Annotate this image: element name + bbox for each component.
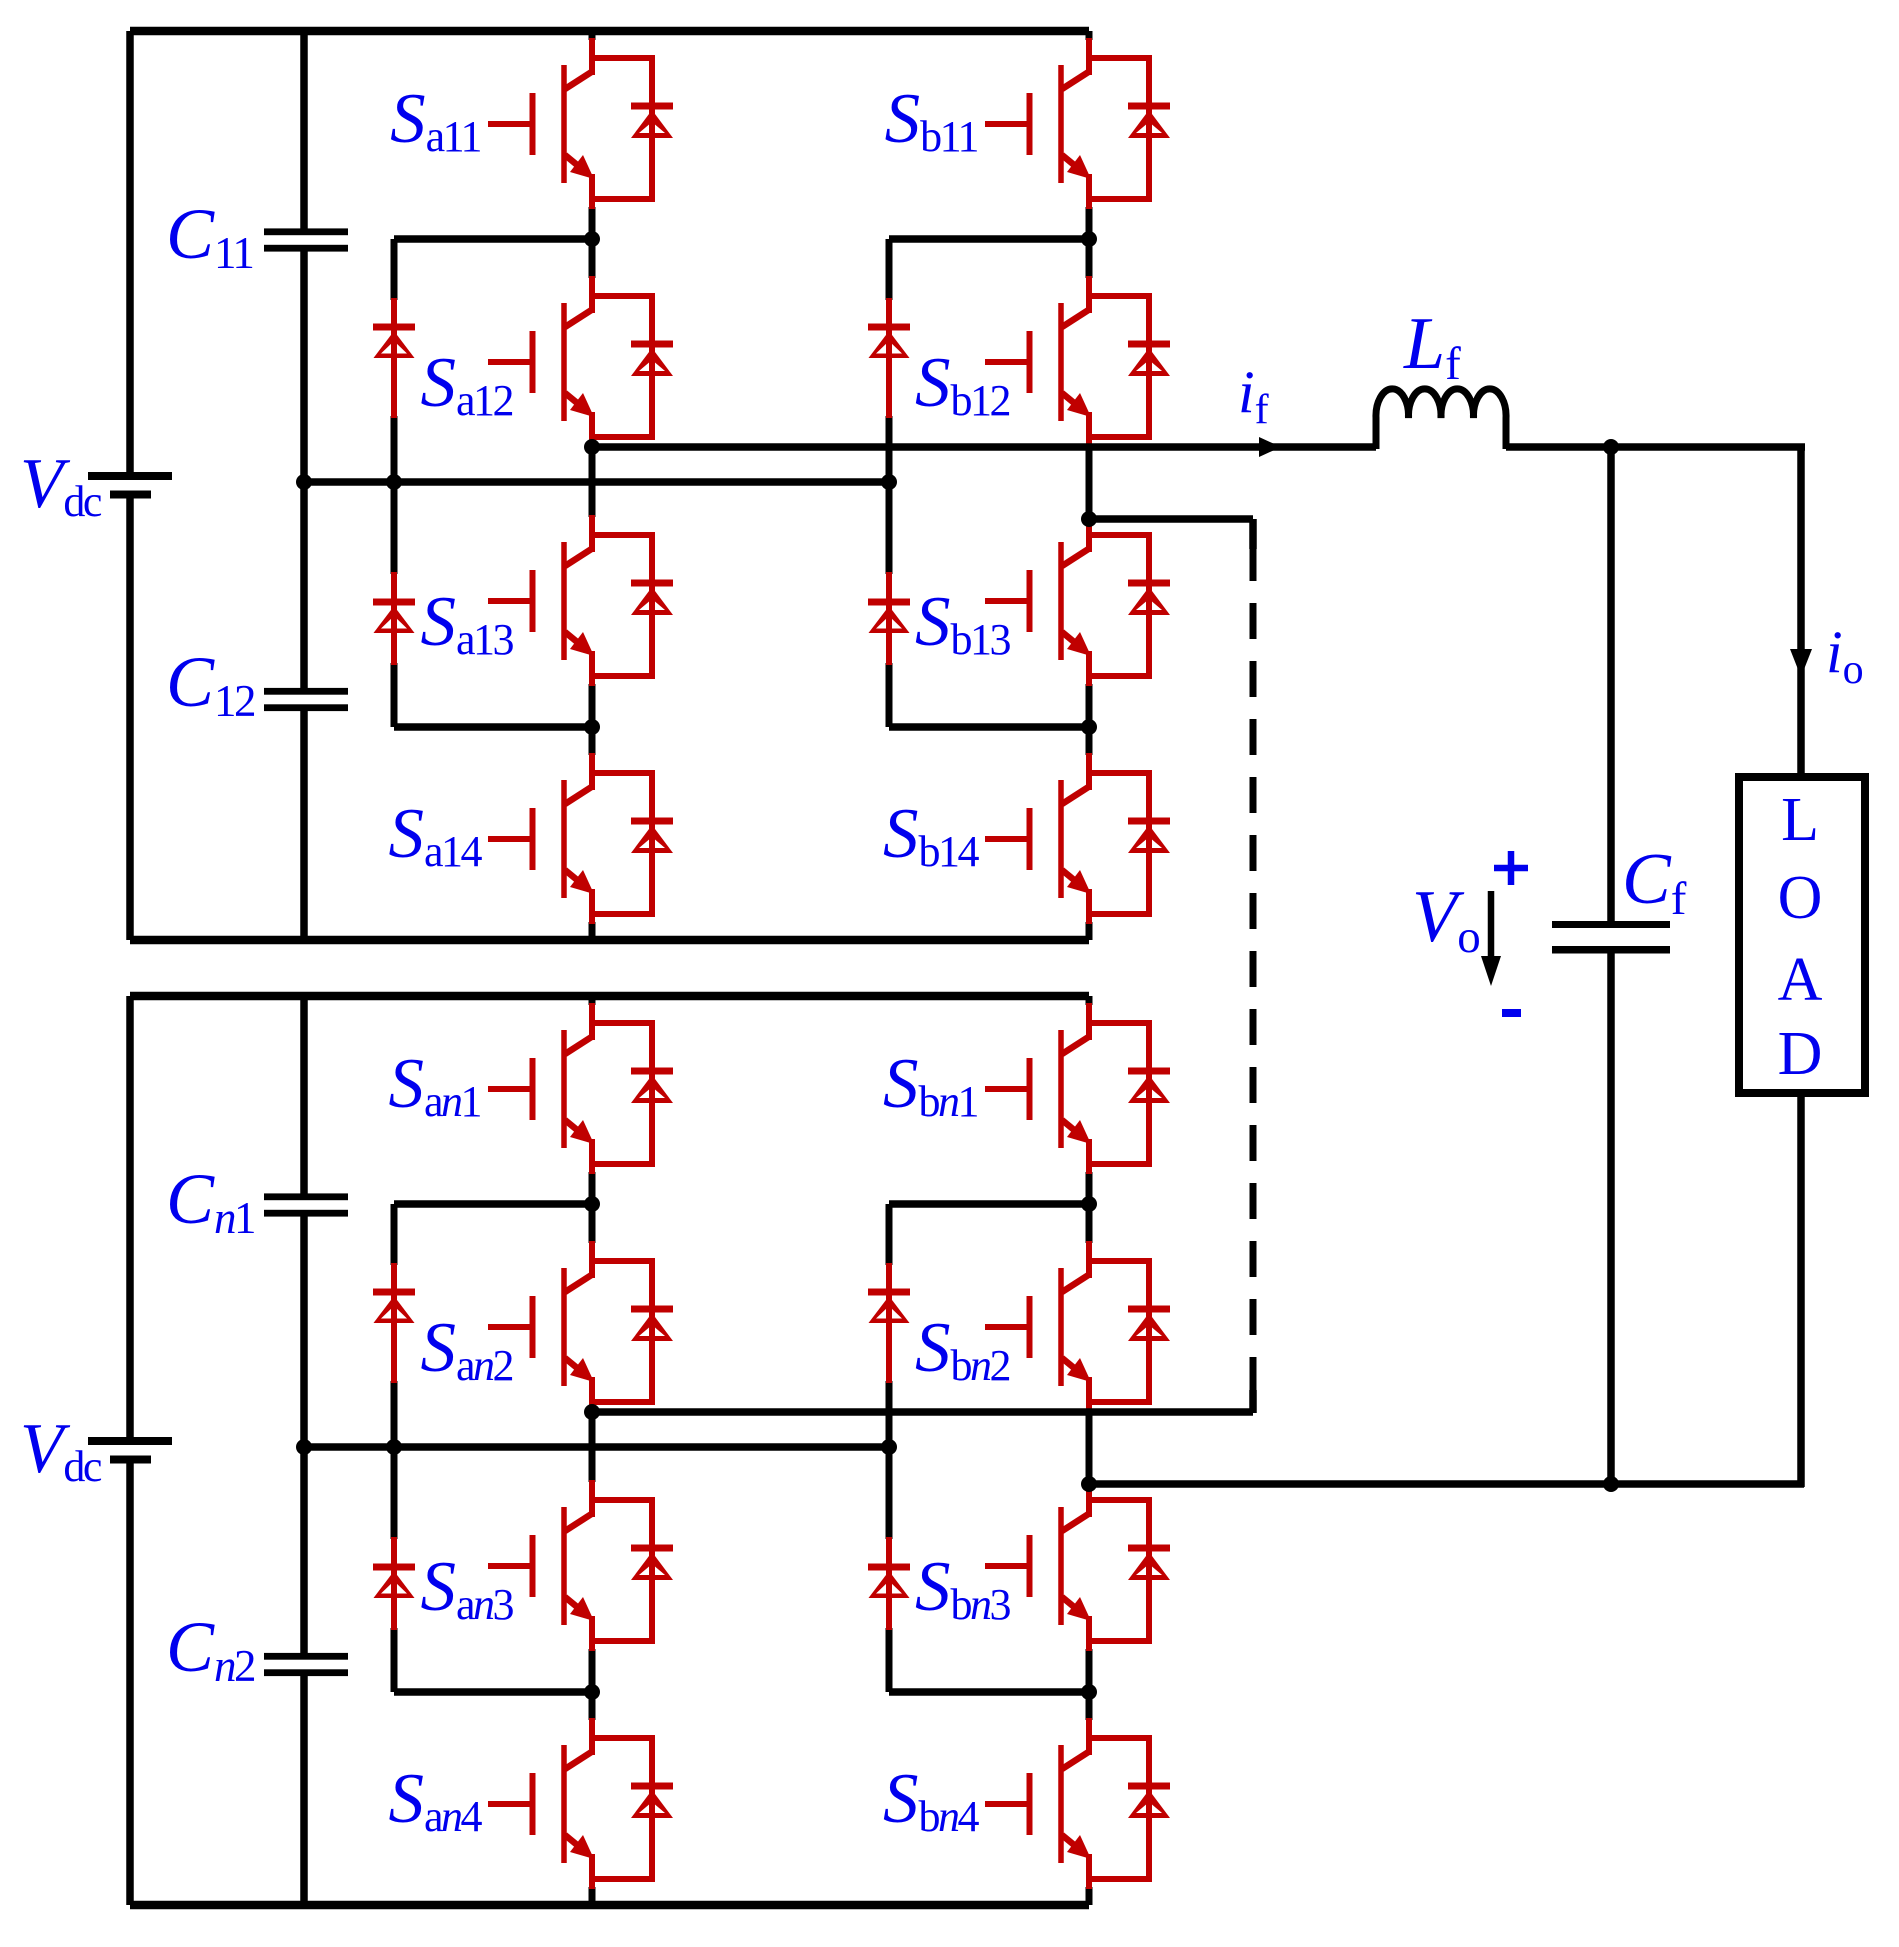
svg-text:O: O xyxy=(1778,864,1823,932)
svg-text:A: A xyxy=(1778,946,1823,1014)
svg-text:L: L xyxy=(1781,786,1819,854)
svg-text:D: D xyxy=(1778,1020,1823,1088)
